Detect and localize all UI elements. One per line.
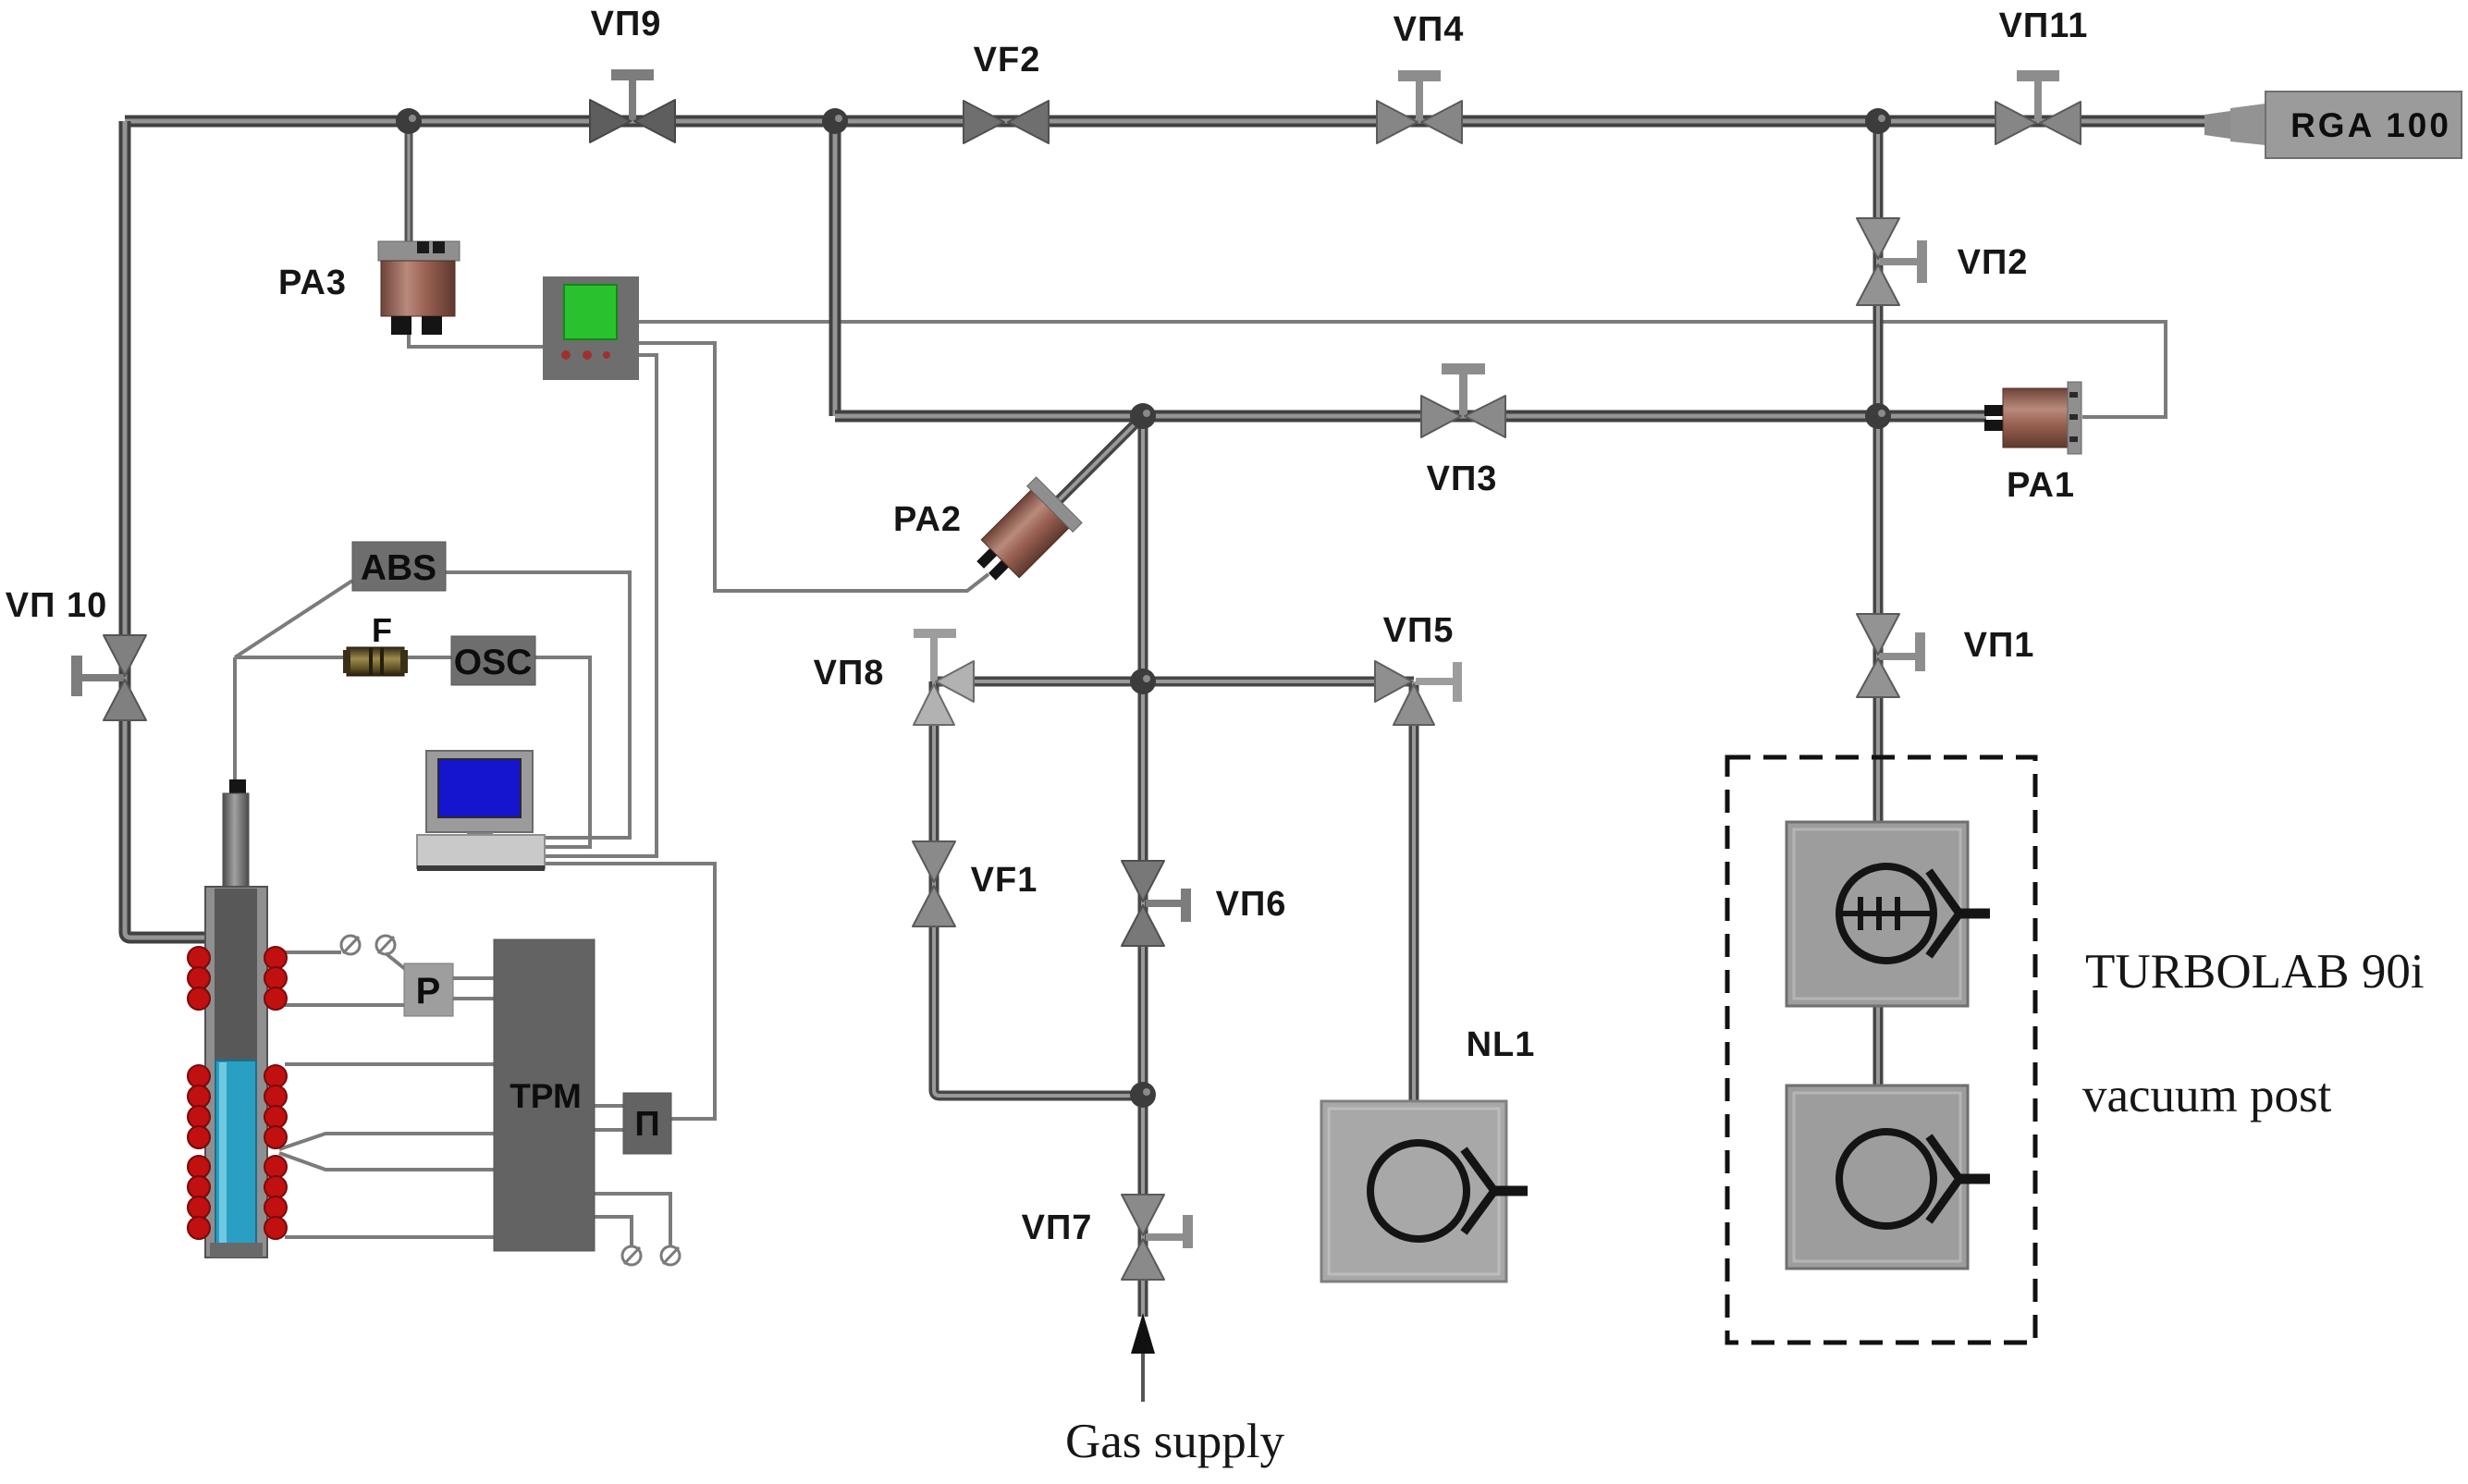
node: junction second manifold / right vertical [1865, 403, 1891, 429]
wire: thermocouple upper fork to TPM [279, 1134, 494, 1149]
gas supply arrow [1131, 1313, 1155, 1402]
svg-text:VП2: VП2 [1958, 243, 2029, 282]
wire: TPM to П unit (a) [595, 1104, 623, 1108]
valve VП7 [1122, 1195, 1193, 1280]
svg-text:VF1: VF1 [971, 861, 1038, 900]
valve VП2 [1857, 218, 1927, 305]
P sensor box [404, 963, 453, 1016]
wire: VF1 leg pipe [934, 681, 1143, 1096]
svg-text:ТРМ: ТРМ [510, 1077, 582, 1115]
valve VП4 [1377, 70, 1462, 143]
wire: VP5 leg pipe to NL1 [1409, 681, 1419, 1102]
wire: bypass manifold y=737 [934, 677, 1414, 687]
open terminal 4 [622, 1246, 641, 1265]
wire: controller to computer base [545, 355, 657, 856]
svg-text:TURBOLAB 90i: TURBOLAB 90i [2085, 945, 2425, 999]
wire: TPM to П unit (b) [595, 1128, 623, 1132]
node: junction gas line / VF1 leg [1130, 1082, 1156, 1108]
wire: TPM to open terminal 4 [595, 1217, 632, 1246]
wire: gas line vertical at x=1236 [1138, 416, 1148, 1317]
svg-text:VП1: VП1 [1964, 626, 2035, 665]
backing pump box [1787, 1085, 1990, 1269]
svg-text:RGA 100: RGA 100 [2290, 106, 2451, 144]
open terminal 2 [376, 936, 395, 954]
RGA 100 analyzer box [2204, 92, 2462, 158]
svg-text:Gas supply: Gas supply [1065, 1415, 1285, 1468]
turbomolecular pump box [1787, 822, 1990, 1006]
svg-text:VF2: VF2 [974, 41, 1041, 80]
wire: furnace head to ABS (diagonal) [235, 581, 352, 657]
svg-text:П: П [634, 1105, 659, 1144]
wire: computer base to П unit [545, 864, 715, 1119]
wire: open terminal 2 to P sensor [386, 953, 405, 969]
valve VF1 [913, 841, 955, 926]
svg-text:vacuum post: vacuum post [2082, 1069, 2332, 1122]
F sensor (gold cylinder) [343, 647, 408, 676]
gauge PA2 (rotated 45°) [964, 477, 1082, 595]
valve VF2 [964, 101, 1049, 143]
П unit box [623, 1093, 671, 1154]
computer monitor [426, 751, 533, 838]
wire: P sensor to TPM (b) [453, 997, 494, 1000]
wire: top manifold pipe [125, 116, 2208, 128]
svg-text:VП9: VП9 [591, 5, 662, 43]
wire: controller to PA1 loop [638, 322, 2166, 417]
valve VП9 [590, 69, 675, 142]
wire: thermocouple lower fork to TPM [279, 1153, 494, 1170]
heater coil red dots [188, 947, 287, 1239]
gauge PA1 [1984, 382, 2081, 454]
ABS box [352, 542, 446, 591]
valve VП11 [1995, 70, 2081, 144]
wire: P sensor to TPM (a) [453, 976, 494, 980]
NL1 pump box [1321, 1101, 1528, 1282]
OSC box [451, 636, 535, 685]
svg-text:PA2: PA2 [893, 500, 962, 539]
wire: diagonal pipe to PA2 [1034, 416, 1143, 525]
wire: second manifold pipe [835, 411, 1986, 423]
wire: heater bottom to TPM [285, 1235, 494, 1239]
svg-text:VП 10: VП 10 [6, 586, 107, 625]
wire: right vertical pipe RGA line to vacuum post [1873, 121, 1884, 825]
TURBOLAB dashed enclosure [1727, 757, 2035, 1343]
node: junction bypass manifold / gas line [1130, 668, 1156, 694]
wire: F sensor to OSC [405, 656, 451, 659]
computer base unit [417, 835, 545, 871]
TPM controller box [494, 939, 595, 1251]
wire: OSC to computer base [535, 657, 590, 847]
svg-text:NL1: NL1 [1467, 1025, 1536, 1064]
svg-text:PA1: PA1 [2007, 466, 2075, 505]
svg-text:VП11: VП11 [1999, 6, 2089, 45]
node: junction second manifold / gas line [1130, 403, 1156, 429]
open terminal 1 [341, 936, 360, 954]
wire: TPM to open terminal 3 [595, 1194, 670, 1246]
svg-text:VП4: VП4 [1394, 10, 1465, 49]
wire: heater to open terminal 1 [285, 950, 341, 954]
svg-text:P: P [416, 971, 441, 1012]
svg-text:OSC: OSC [454, 643, 533, 682]
valve VП1 [1857, 614, 1925, 697]
svg-text:PA3: PA3 [278, 264, 347, 302]
gauge PA3 [378, 241, 460, 335]
wire: left drop pipe to furnace [125, 121, 206, 938]
svg-text:VП3: VП3 [1427, 460, 1498, 498]
svg-text:VП6: VП6 [1216, 885, 1287, 924]
node: junction top pipe / right vertical [1865, 108, 1891, 134]
wire: PA3 stem pipe [405, 121, 413, 244]
wire: furnace head drop [233, 657, 237, 783]
controller unit with green display [543, 276, 639, 380]
svg-text:ABS: ABS [361, 548, 436, 588]
wire: controller to PA2 [638, 343, 988, 591]
valve VП3 [1421, 363, 1505, 437]
valve VП8 (angle) [914, 629, 974, 725]
wire: ABS to computer base [446, 572, 630, 838]
svg-text:VП8: VП8 [814, 654, 885, 693]
wire: heater to P sensor [285, 1003, 404, 1007]
svg-text:VП5: VП5 [1383, 611, 1455, 650]
wire: pipe between turbo pump and backing pump [1873, 1004, 1884, 1087]
svg-text:F: F [372, 611, 392, 649]
wire: heater mid to TPM [285, 1062, 494, 1066]
valve VП10 [71, 635, 146, 720]
open terminal 3 [661, 1246, 680, 1265]
wire: drop pipe at x=903 [829, 121, 841, 416]
node: junction top pipe / PA3 stem [396, 108, 422, 134]
node: junction top pipe / drop x=903 [822, 108, 848, 134]
svg-text:VП7: VП7 [1022, 1208, 1093, 1247]
furnace reactor tube [205, 779, 267, 1257]
valve VП5 (angle) [1375, 661, 1462, 725]
wire: PA3 to controller [409, 333, 544, 347]
wire: furnace head to F sensor [235, 656, 347, 659]
valve VП6 [1122, 861, 1191, 946]
